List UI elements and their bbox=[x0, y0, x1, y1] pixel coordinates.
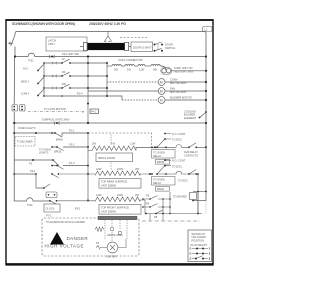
switch row y88 bbox=[62, 84, 70, 88]
switch row y207 bbox=[150, 204, 158, 207]
switch MED bbox=[38, 78, 44, 84]
svg-text:TO EOC: TO EOC bbox=[172, 164, 182, 168]
svg-text:P1-4: P1-4 bbox=[77, 92, 83, 96]
connector blocks lower left bbox=[46, 192, 57, 198]
junction dots mid verticals bbox=[87, 55, 89, 57]
junction rail2 right bbox=[205, 55, 207, 57]
svg-text:P2-1: P2-1 bbox=[30, 169, 36, 173]
connector on rail y123 bbox=[54, 121, 60, 124]
svg-text:RF: RF bbox=[62, 70, 66, 74]
svg-text:2W: 2W bbox=[135, 193, 139, 197]
legend row 2 bbox=[190, 252, 210, 255]
wire verticals bbox=[163, 192, 170, 214]
wire row y207 bbox=[143, 206, 170, 208]
legend row 1 bbox=[190, 247, 210, 250]
svg-text:12W: 12W bbox=[130, 142, 136, 146]
svg-text:MED 3: MED 3 bbox=[21, 80, 29, 84]
svg-text:TO EOC: TO EOC bbox=[172, 138, 182, 142]
svg-text:CONV: CONV bbox=[170, 78, 178, 82]
right bus bottom corner bbox=[193, 200, 206, 202]
motor oven fan bbox=[88, 88, 206, 95]
vertical x88 lower bbox=[87, 133, 89, 201]
connectors on element rows bbox=[53, 62, 57, 90]
svg-text:MOTOR 240V: MOTOR 240V bbox=[170, 81, 187, 85]
legend box bbox=[188, 230, 212, 262]
svg-text:P2: P2 bbox=[29, 162, 33, 166]
indicator lamp bbox=[161, 67, 206, 74]
svg-text:SWITCH: SWITCH bbox=[165, 46, 175, 50]
wire vertical x107 bbox=[106, 63, 108, 96]
switch on row y213.5 bbox=[156, 210, 163, 213]
svg-text:TOP FRONT SURFACE: TOP FRONT SURFACE bbox=[101, 206, 129, 210]
svg-text:ASSY: ASSY bbox=[48, 42, 55, 46]
svg-text:TOD: TOD bbox=[27, 203, 33, 207]
svg-text:K2: K2 bbox=[96, 241, 100, 245]
svg-text:TO ELIMINATE SHOCK HAZARD: TO ELIMINATE SHOCK HAZARD bbox=[46, 220, 85, 224]
svg-text:240V: 240V bbox=[117, 167, 123, 171]
wire vertical x88 upper bbox=[87, 57, 89, 124]
arrow tick at main switch bbox=[9, 42, 14, 44]
L1 label box top right bbox=[203, 27, 213, 32]
legend row 3 with switch bbox=[190, 256, 210, 260]
resistor bake element bbox=[60, 171, 150, 176]
svg-text:TOP REAR SURFACE: TOP REAR SURFACE bbox=[101, 180, 127, 184]
door assembly box bbox=[46, 37, 87, 51]
svg-text:BLOWER MOTOR: BLOWER MOTOR bbox=[170, 96, 192, 100]
relay 2 coil box bbox=[152, 177, 176, 186]
resistor broil element bbox=[88, 146, 155, 151]
wire rail2 y56.5 with hop bbox=[15, 53, 206, 56]
relay 2 name plate bbox=[156, 187, 170, 192]
lower right lattice bbox=[143, 192, 206, 214]
svg-text:P1-1: P1-1 bbox=[69, 129, 75, 133]
switch bake row bbox=[52, 174, 59, 178]
svg-text:UNIT 2585W: UNIT 2585W bbox=[101, 183, 116, 187]
svg-text:MOTOR 240V: MOTOR 240V bbox=[170, 90, 187, 94]
EOC grey bar bbox=[98, 216, 137, 219]
svg-text:208/240V 60HZ 3-W PG: 208/240V 60HZ 3-W PG bbox=[89, 22, 126, 26]
switch on bake feed bbox=[189, 170, 196, 175]
dash-dot wire y111 bbox=[28, 111, 84, 113]
surface switch bank bbox=[38, 63, 44, 96]
switch row y63 bbox=[62, 59, 70, 63]
svg-text:2W: 2W bbox=[114, 68, 118, 72]
wire row y63 bbox=[44, 62, 107, 64]
svg-text:SPARK MOD: SPARK MOD bbox=[107, 233, 122, 237]
svg-text:SURFACE UNITS 240V: SURFACE UNITS 240V bbox=[42, 118, 70, 122]
relay contact row y165 bbox=[52, 166, 88, 170]
svg-text:RELAY: RELAY bbox=[153, 181, 162, 185]
wire row y96 bbox=[44, 95, 107, 97]
resistor lower element bbox=[57, 197, 146, 214]
wire bake row to relay bbox=[150, 171, 198, 174]
svg-text:TO EOC: TO EOC bbox=[178, 179, 188, 183]
svg-text:UNIT 2585W: UNIT 2585W bbox=[101, 209, 116, 213]
svg-text:240V: 240V bbox=[117, 193, 123, 197]
svg-text:BAKE: BAKE bbox=[56, 138, 63, 142]
svg-text:TO OVEN: TO OVEN bbox=[153, 150, 165, 154]
lower element label box bbox=[99, 205, 141, 215]
svg-text:LATCH: LATCH bbox=[48, 39, 56, 43]
wire row y76 bbox=[44, 75, 107, 77]
rows to elements bbox=[44, 57, 122, 124]
rail y123 bbox=[14, 122, 206, 124]
relay armature bbox=[157, 166, 165, 174]
switch to bus bbox=[189, 143, 206, 148]
svg-text:DANGER: DANGER bbox=[67, 236, 89, 241]
wire L1 drop lower bbox=[14, 47, 16, 57]
relay armature bbox=[157, 139, 165, 147]
svg-text:M: M bbox=[160, 98, 163, 102]
svg-text:BROIL: BROIL bbox=[157, 160, 165, 164]
row y160 bbox=[14, 160, 59, 166]
contact stubs bbox=[165, 134, 171, 140]
svg-text:12W: 12W bbox=[96, 193, 102, 197]
svg-text:LOW 4: LOW 4 bbox=[21, 92, 30, 96]
svg-text:CONTACTS: CONTACTS bbox=[184, 153, 198, 157]
door latch box bbox=[131, 42, 153, 51]
svg-text:P4-2: P4-2 bbox=[91, 110, 97, 114]
svg-text:M: M bbox=[160, 80, 163, 84]
svg-text:IND LIGHT 240V: IND LIGHT 240V bbox=[174, 70, 194, 74]
door switch upper bbox=[155, 42, 162, 51]
svg-text:PLUG RECPT: PLUG RECPT bbox=[191, 243, 208, 247]
svg-text:BAKE: BAKE bbox=[157, 187, 164, 191]
contact stubs bbox=[165, 160, 171, 166]
svg-text:DOOR: DOOR bbox=[165, 42, 173, 46]
svg-text:RR: RR bbox=[62, 82, 66, 86]
relay 1 name plate bbox=[156, 160, 170, 165]
svg-text:1W: 1W bbox=[111, 142, 115, 146]
bake element label box bbox=[99, 179, 141, 189]
svg-text:TOD: TOD bbox=[28, 59, 34, 63]
svg-text:1W: 1W bbox=[127, 68, 131, 72]
switch LO bbox=[38, 90, 44, 96]
svg-text:FAN: FAN bbox=[170, 87, 175, 91]
right bus dotted continuation bbox=[205, 201, 207, 214]
svg-text:12W: 12W bbox=[139, 68, 145, 72]
svg-text:LF: LF bbox=[62, 57, 65, 61]
svg-text:P8: P8 bbox=[154, 215, 158, 219]
dashed boundary x111 bbox=[110, 134, 112, 170]
switch lower row bbox=[50, 201, 57, 204]
wire stubs to dashed boundary bbox=[150, 214, 163, 221]
svg-text:P1-3: P1-3 bbox=[69, 161, 75, 165]
svg-text:DOOR IS SHUT: DOOR IS SHUT bbox=[133, 45, 152, 49]
wire row y199 bbox=[143, 198, 170, 200]
svg-text:12W: 12W bbox=[96, 167, 102, 171]
svg-text:2W: 2W bbox=[135, 167, 139, 171]
dashed link ground to door box bbox=[120, 37, 148, 39]
dashed wire row y133 to relay1 bbox=[88, 133, 152, 147]
warning triangle bbox=[50, 232, 64, 245]
svg-text:P5: P5 bbox=[146, 194, 150, 198]
svg-text:AUTO CONNECTOR: AUTO CONNECTOR bbox=[118, 58, 143, 62]
terminal block black bar bbox=[80, 42, 131, 50]
fuse label box on x88 bbox=[90, 109, 99, 114]
svg-text:OVEN LIGHTS: OVEN LIGHTS bbox=[18, 126, 36, 130]
bank contact dots bbox=[37, 70, 39, 72]
switch to bus bbox=[200, 113, 206, 118]
dashed boundary lower right bbox=[142, 220, 200, 222]
svg-text:ELEMENT: ELEMENT bbox=[184, 116, 197, 120]
wire row y213.5 bbox=[145, 213, 202, 215]
danger high voltage box bbox=[42, 218, 139, 256]
svg-text:BROIL 3410W: BROIL 3410W bbox=[99, 156, 116, 160]
dashed box TO BLOWER bbox=[15, 137, 35, 147]
igniter circle bbox=[107, 242, 118, 253]
svg-text:N.O. CONT: N.O. CONT bbox=[172, 159, 186, 163]
ground chassis symbol on top rail bbox=[104, 31, 111, 41]
row switch dots bbox=[61, 62, 63, 64]
svg-text:SCHEMATIC (SHOWN WITH DOOR OPE: SCHEMATIC (SHOWN WITH DOOR OPEN) bbox=[12, 22, 75, 26]
wire left bus x14 bbox=[13, 57, 15, 202]
connector block P3 on left bus bbox=[12, 105, 25, 112]
oven relay unit 1 (broil) bbox=[136, 134, 206, 148]
row y133 bbox=[14, 133, 88, 137]
svg-text:9W: 9W bbox=[153, 68, 157, 72]
switch row y199 bbox=[150, 196, 158, 199]
motor cooling blower bbox=[122, 97, 206, 104]
svg-text:N.O. CONT: N.O. CONT bbox=[172, 132, 186, 136]
svg-text:HI 2: HI 2 bbox=[23, 67, 28, 71]
switch row y76 bbox=[62, 72, 70, 76]
HV internal dashed verticals bbox=[105, 220, 127, 242]
switch at 44,188 bbox=[44, 184, 50, 188]
connector on rail2 bbox=[49, 55, 55, 58]
motor conv fan bbox=[107, 79, 206, 86]
page border frame bbox=[6, 20, 213, 264]
svg-text:IGNITER: IGNITER bbox=[106, 255, 117, 259]
broil relay contact row y147 bbox=[52, 147, 88, 151]
broil element label box bbox=[96, 153, 133, 162]
oven relay unit 2 (bake) bbox=[150, 160, 198, 213]
wire bake row left branch bbox=[14, 174, 44, 188]
svg-text:P7-2: P7-2 bbox=[46, 214, 52, 218]
svg-text:P9-2 GRY WH: P9-2 GRY WH bbox=[62, 52, 79, 56]
svg-text:2W: 2W bbox=[92, 142, 96, 146]
svg-text:DLB RELAY: DLB RELAY bbox=[184, 150, 198, 154]
surface element coil row bbox=[107, 64, 166, 70]
svg-text:TO OVEN: TO OVEN bbox=[153, 177, 165, 181]
junction L1-rail2 bbox=[14, 55, 16, 57]
wire bank vertical x44 bbox=[43, 63, 45, 96]
svg-text:HIGH VOLTAGE: HIGH VOLTAGE bbox=[45, 244, 84, 249]
relay 1 coil box bbox=[152, 150, 176, 159]
wire elbow x122 bbox=[107, 96, 122, 100]
wire broil row to relay bbox=[136, 145, 189, 148]
HV small resistor bbox=[95, 227, 104, 232]
wire row y88 bbox=[44, 87, 107, 89]
svg-text:POSITION: POSITION bbox=[192, 238, 205, 242]
switch HI bbox=[38, 65, 44, 71]
svg-text:SURF UNIT ON: SURF UNIT ON bbox=[174, 66, 193, 70]
svg-text:P1-2: P1-2 bbox=[69, 143, 75, 147]
wire L1 top rail bbox=[15, 32, 206, 201]
svg-text:RELAY: RELAY bbox=[153, 154, 162, 158]
svg-text:LIGHTS: LIGHTS bbox=[39, 151, 49, 155]
svg-text:TO LOCK MOTOR: TO LOCK MOTOR bbox=[44, 107, 66, 111]
svg-text:CLOCK: CLOCK bbox=[46, 207, 55, 211]
clock box bbox=[44, 204, 60, 212]
svg-text:BROIL: BROIL bbox=[54, 150, 62, 154]
svg-text:TO BOARD: TO BOARD bbox=[173, 195, 187, 199]
svg-text:TO BLOWER: TO BLOWER bbox=[17, 140, 33, 144]
svg-text:P6: P6 bbox=[146, 202, 150, 206]
HV small circles bbox=[110, 227, 114, 231]
wire down right bbox=[197, 174, 199, 214]
svg-text:M: M bbox=[160, 89, 163, 93]
svg-text:P5-1: P5-1 bbox=[75, 207, 81, 211]
left bus bottom elbow with hop bbox=[14, 198, 50, 201]
switch main (L1) bbox=[11, 35, 15, 46]
